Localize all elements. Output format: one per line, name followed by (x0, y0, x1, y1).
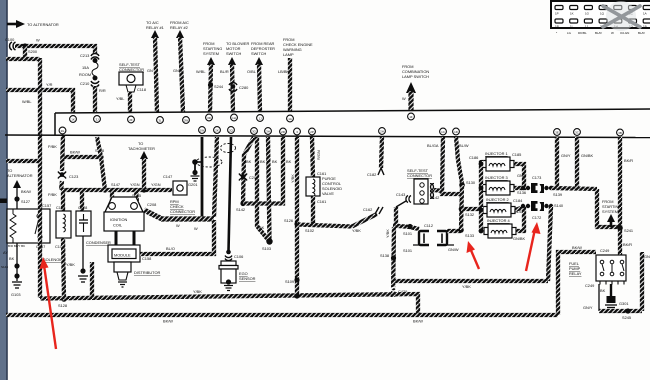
W/BL vertical bus (22, 58, 40, 298)
condenser C128 (76, 205, 111, 245)
coil to module wires (115, 231, 118, 246)
svg-text:BK: BK (259, 225, 265, 230)
svg-text:ROOM: ROOM (79, 72, 91, 77)
svg-text:S136: S136 (517, 190, 526, 195)
svg-text:C249: C249 (600, 248, 609, 253)
svg-text:S109: S109 (285, 279, 294, 284)
purge control solenoid valve (305, 176, 342, 233)
pin 2H down to open connector C182 (367, 137, 384, 177)
svg-text:2H: 2H (380, 130, 384, 134)
svg-text:1K: 1K (570, 12, 574, 16)
C164 down to bus (58, 238, 75, 308)
svg-text:1K: 1K (71, 118, 75, 122)
svg-text:S133: S133 (465, 233, 474, 238)
svg-text:BK/W: BK/W (572, 245, 582, 250)
C172 down wire to Y/BK feed (548, 206, 551, 281)
svg-text:SWITCH: SWITCH (251, 51, 267, 56)
RPM check connector (163, 174, 195, 214)
svg-text:C147: C147 (163, 174, 172, 179)
svg-text:1D: 1D (454, 130, 458, 134)
starter relay area: feed arrow TO ALTERNATOR (7, 168, 33, 209)
pin 2P down to purge valve (312, 137, 326, 177)
svg-text:O/BL: O/BL (247, 69, 257, 74)
svg-text:BL/GA: BL/GA (427, 143, 439, 148)
svg-text:W: W (194, 226, 198, 231)
svg-text:S142: S142 (236, 207, 245, 212)
Y/BK link and S101 (385, 224, 419, 238)
svg-text:1P: 1P (555, 12, 559, 16)
svg-text:LAMP SWITCH: LAMP SWITCH (402, 74, 429, 79)
stub wire into strip y161 (6, 159, 40, 163)
svg-text:BK/W: BK/W (413, 319, 423, 324)
connector C172 (521, 201, 564, 220)
Y/BK horizontal feed (393, 281, 548, 289)
svg-text:Y/GN: Y/GN (151, 182, 161, 187)
svg-text:COIL: COIL (113, 223, 123, 228)
svg-text:2P: 2P (310, 130, 314, 134)
svg-text:S200: S200 (28, 49, 38, 54)
connector C123 (58, 172, 78, 180)
svg-text:BL/O: BL/O (166, 246, 175, 251)
condenser C164 (56, 205, 71, 238)
svg-text:S103: S103 (262, 246, 271, 251)
connector C173 (521, 175, 562, 197)
fuel pump relay (569, 248, 626, 288)
wire W to fuse (15, 38, 95, 55)
svg-text:R/R: R/R (99, 88, 106, 93)
self-test connector C118 (top) (116, 62, 146, 113)
svg-text:SYSTEM: SYSTEM (602, 209, 618, 214)
svg-text:GN/Y: GN/Y (583, 305, 593, 310)
svg-text:BK/R: BK/R (624, 158, 633, 163)
svg-text:G301: G301 (619, 301, 629, 306)
svg-text:S140: S140 (554, 203, 564, 208)
wire pin 3C down (GN/BK) (577, 137, 594, 189)
wire pin 2K down (214, 137, 217, 217)
svg-text:C185: C185 (512, 152, 521, 157)
svg-text:Y/GN: Y/GN (130, 182, 140, 187)
svg-text:CONNECTOR: CONNECTOR (119, 67, 144, 72)
svg-text:2F: 2F (129, 118, 133, 122)
strip pins top row (70, 113, 415, 123)
svg-text:1L: 1L (570, 25, 574, 29)
svg-text:AY: AY (3, 250, 8, 255)
svg-text:ALTERNATOR: ALTERNATOR (7, 173, 33, 178)
svg-text:INJECTOR 4: INJECTOR 4 (487, 218, 510, 223)
svg-text:S139: S139 (553, 192, 562, 197)
svg-text:GN/Y: GN/Y (173, 68, 183, 73)
svg-text:SOLENOID: SOLENOID (43, 257, 63, 262)
arrow TO BLOWER MOTOR SWITCH (220, 41, 249, 112)
svg-text:3B: 3B (618, 131, 622, 135)
svg-text:3L: 3L (158, 119, 162, 123)
svg-text:TACHOMETER: TACHOMETER (128, 146, 155, 151)
svg-text:1A: 1A (643, 12, 647, 16)
injector right rail upper (514, 164, 527, 195)
svg-text:LB/BK: LB/BK (278, 69, 289, 74)
bus3 right riser to relay feed (558, 252, 596, 315)
svg-text:INJECTOR 3: INJECTOR 3 (485, 175, 508, 180)
bus3 BK/W (6, 315, 558, 324)
svg-text:C106: C106 (234, 254, 243, 259)
fuel pump relay ground (600, 284, 629, 310)
svg-text:Y/BK: Y/BK (193, 289, 202, 294)
svg-text:S128: S128 (58, 303, 67, 308)
svg-text:CONNECTOR: CONNECTOR (170, 209, 195, 214)
svg-text:3D: 3D (207, 116, 211, 120)
open connector C162 (363, 207, 383, 214)
svg-text:C143: C143 (396, 192, 405, 197)
svg-text:3H: 3H (266, 130, 270, 134)
wire to W/BL bus (6, 46, 40, 59)
svg-text:S245: S245 (622, 315, 631, 320)
svg-text:BK: BK (600, 288, 606, 293)
svg-text:P/BK: P/BK (48, 144, 57, 149)
injector 1 (469, 151, 521, 171)
EEC connector strip (5, 109, 650, 138)
svg-text:S244: S244 (214, 84, 224, 89)
svg-text:RELAY #2: RELAY #2 (170, 25, 188, 30)
svg-text:INJECTOR 2: INJECTOR 2 (486, 197, 509, 202)
svg-text:IGNITION: IGNITION (110, 217, 127, 222)
svg-text:W: W (176, 223, 180, 228)
arrow FROM CHECK ENGINE WARNING LAMP (278, 37, 313, 112)
svg-text:15A: 15A (82, 65, 89, 70)
ground G201 with dashed oval, from pin 1W (188, 137, 236, 219)
svg-text:C208: C208 (147, 202, 156, 207)
staircase to S241 (597, 189, 620, 227)
svg-text:P/BK: P/BK (48, 192, 57, 197)
svg-text:BL/R: BL/R (220, 69, 229, 74)
svg-text:C173: C173 (532, 175, 541, 180)
svg-text:1H: 1H (232, 116, 236, 120)
svg-text:RELAY: RELAY (569, 271, 582, 276)
svg-text:BK/W: BK/W (163, 319, 173, 324)
svg-text:1G: 1G (585, 12, 590, 16)
svg-text:C184: C184 (513, 198, 523, 203)
svg-text:C100: C100 (5, 37, 15, 42)
coil terminal stubs (110, 190, 114, 204)
self-test/Y-BK vertical down to bus (380, 227, 407, 297)
wire pin 3E down (GN/Y) (557, 137, 571, 188)
svg-text:C172: C172 (532, 215, 541, 220)
svg-text:1C: 1C (441, 130, 445, 134)
wire pin 3J down to S147 (97, 137, 120, 193)
svg-text:Y/BL: Y/BL (116, 96, 125, 101)
svg-text:S102: S102 (305, 228, 314, 233)
connector C106 (225, 250, 243, 261)
svg-text:MODULE: MODULE (114, 253, 131, 258)
svg-text:S241: S241 (624, 228, 633, 233)
svg-text:Y/BK: Y/BK (385, 229, 390, 238)
svg-text:1B: 1B (643, 25, 647, 29)
left window strip (0, 0, 7, 380)
svg-text:C157: C157 (36, 244, 45, 249)
svg-text:BK/R: BK/R (623, 242, 632, 247)
svg-text:3C: 3C (575, 131, 579, 135)
module left leg to bus (90, 262, 94, 298)
wire pin 2Q down to C106 (W) (194, 137, 231, 251)
svg-text:BK/W: BK/W (70, 150, 80, 155)
svg-text:C164: C164 (56, 205, 66, 210)
svg-text:S138: S138 (380, 253, 389, 258)
FROM STARTING SYSTEM (right) (602, 199, 621, 227)
svg-text:C249: C249 (585, 283, 594, 288)
svg-text:1F: 1F (409, 115, 413, 119)
injector right rail lower (515, 206, 524, 231)
Y/BK horizontal S126 line (297, 214, 377, 233)
svg-text:1J: 1J (585, 25, 589, 29)
svg-text:BK/W: BK/W (21, 189, 31, 194)
svg-text:C210: C210 (80, 81, 90, 86)
pin 2R down joins S142 (243, 137, 292, 204)
svg-text:BK: BK (260, 159, 266, 164)
svg-text:1A: 1A (288, 117, 292, 121)
red annotation arrow 2 (S-column) (467, 241, 480, 269)
svg-text:GN/BK: GN/BK (513, 236, 526, 241)
svg-text:G103: G103 (11, 292, 21, 297)
ignition coil (104, 197, 144, 231)
svg-text:Y/BK: Y/BK (66, 262, 75, 267)
svg-text:R/GN: R/GN (316, 150, 321, 160)
arrow FROM REAR DEFROSTER SWITCH (247, 41, 275, 112)
svg-text:LAMP: LAMP (283, 52, 294, 57)
svg-text:C158: C158 (142, 256, 151, 261)
svg-text:W: W (36, 38, 40, 43)
stubs down to condensers (61, 190, 65, 211)
wire pin 1C down (427, 137, 461, 194)
svg-text:SENSOR: SENSOR (239, 276, 256, 281)
svg-text:GN/Y: GN/Y (517, 173, 527, 178)
svg-text:CONNECTOR: CONNECTOR (407, 173, 432, 178)
svg-text:W/BL: W/BL (22, 99, 32, 104)
svg-text:W/BL: W/BL (196, 69, 206, 74)
strip pins bottom row (59, 127, 623, 136)
arrow FROM STARTING SYSTEM (top) (196, 41, 224, 112)
svg-text:C162: C162 (363, 207, 372, 212)
svg-text:SYSTEM: SYSTEM (203, 51, 219, 56)
pin 3H2 straight to S103 (262, 137, 278, 251)
arrow FROM A/C RELAY #2 (170, 20, 189, 112)
arrow TO A/C RELAY #1 (146, 20, 164, 112)
arrow FROM COMBINATION LAMP SWITCH (402, 64, 429, 111)
red annotation arrow 3 (C172) (526, 222, 541, 271)
svg-text:S101: S101 (403, 231, 412, 236)
svg-text:S127: S127 (21, 199, 30, 204)
connector C206 (239, 174, 258, 181)
C128 down to ground (78, 236, 88, 282)
wire from pin 2G down (P/BK) (48, 136, 63, 197)
svg-text:2K: 2K (215, 129, 219, 133)
svg-text:C118: C118 (137, 87, 146, 92)
arrow TO ALTERNATOR (top left) (7, 20, 59, 28)
svg-text:S101: S101 (403, 248, 412, 253)
svg-text:C182: C182 (367, 172, 376, 177)
svg-text:BL/R: BL/R (595, 31, 603, 35)
svg-text:C123: C123 (69, 174, 78, 179)
fuse chain C213 / 15A / C210 (79, 53, 106, 113)
BK wire cluster: pin 3G down to S142 (236, 137, 254, 212)
svg-text:GN/BK: GN/BK (581, 153, 594, 158)
svg-text:C280: C280 (239, 85, 249, 90)
svg-text:2R: 2R (281, 130, 285, 134)
svg-text:Y/R: Y/R (46, 82, 53, 87)
svg-text:SWITCH: SWITCH (226, 51, 242, 56)
pin 3H down diagonal to S103 (257, 137, 269, 241)
svg-text:INJECTOR 1: INJECTOR 1 (485, 151, 508, 156)
junction column (459, 185, 481, 230)
svg-text:2W: 2W (184, 119, 189, 123)
svg-text:G201: G201 (188, 182, 198, 187)
svg-text:BK: BK (272, 159, 278, 164)
injector 3 (482, 175, 514, 195)
svg-text:Y/BK: Y/BK (352, 228, 361, 233)
bus2 Y/BK (40, 289, 418, 315)
svg-text:DK/BL: DK/BL (578, 31, 587, 35)
svg-text:GN/Y: GN/Y (561, 153, 571, 158)
svg-text:GN/W: GN/W (448, 247, 459, 252)
svg-text:S126: S126 (284, 218, 293, 223)
inline connector C112 (two D-pairs) (403, 223, 474, 253)
svg-text:BL/W: BL/W (459, 143, 469, 148)
svg-text:TO ALTERNATOR: TO ALTERNATOR (27, 22, 59, 27)
svg-text:S130: S130 (466, 180, 476, 185)
pin 3 down (Y/BK) long vertical (284, 137, 300, 297)
svg-text:DISTRIBUTOR: DISTRIBUTOR (134, 270, 160, 275)
strip edge connector stub (0, 199, 7, 204)
svg-text:S147: S147 (111, 182, 120, 187)
Y/R horizontal bus to pin 1K (6, 82, 73, 113)
svg-text:VALVE: VALVE (322, 191, 334, 196)
svg-text:RELAY #1: RELAY #1 (146, 25, 164, 30)
svg-text:C186: C186 (469, 155, 478, 160)
injector left rail (479, 160, 484, 233)
svg-text:Y/BK: Y/BK (290, 174, 295, 183)
svg-text:C112: C112 (424, 223, 433, 228)
svg-text:BL/R: BL/R (638, 31, 646, 35)
svg-text:C213: C213 (80, 53, 89, 58)
BL/O wire from module (140, 220, 214, 254)
svg-text:Y/BK: Y/BK (462, 284, 471, 289)
fuse panel (top right) (551, 1, 650, 35)
svg-text:LG: LG (567, 31, 572, 35)
fuel pump relay left pin to GN/Y run (583, 252, 650, 320)
EGO sensor (219, 261, 256, 291)
svg-text:GN: GN (147, 68, 153, 73)
distributor (114, 262, 160, 287)
self test drop to Y/BK line (394, 207, 398, 225)
svg-text:BK: BK (286, 159, 292, 164)
relay labels (3, 244, 65, 262)
svg-text:O/LGN: O/LGN (620, 31, 629, 35)
svg-text:C142: C142 (430, 195, 439, 200)
svg-text:W: W (611, 31, 614, 35)
injector 2 (483, 197, 523, 217)
wire 3E junction to staircase (551, 188, 597, 189)
gray X mark (606, 1, 636, 31)
wire pin 1D down to S130 (456, 137, 476, 188)
svg-text:C161: C161 (317, 199, 326, 204)
svg-text:C128: C128 (78, 205, 87, 210)
injector 4 (484, 218, 526, 241)
svg-text:C157: C157 (42, 203, 51, 208)
TO TACHOMETER arrow (128, 141, 155, 190)
svg-text:3E: 3E (555, 131, 559, 135)
svg-text:1W: 1W (200, 129, 205, 133)
svg-text:1Q: 1Q (600, 12, 605, 16)
connector C100 (5, 37, 16, 50)
red annotation arrow 1 (starter relay) (40, 257, 57, 349)
thick W wire from coil (144, 210, 214, 228)
svg-text:CONDENSER: CONDENSER (86, 240, 111, 245)
starter relay box (7, 203, 51, 243)
svg-text:S144: S144 (1, 265, 8, 269)
svg-text:GN: GN (644, 254, 650, 259)
BK/W branch S148 (62, 148, 104, 160)
self test connector (middle) (396, 168, 443, 204)
svg-text:S132: S132 (465, 212, 474, 217)
svg-text:BK: BK (246, 159, 252, 164)
svg-text:BK: BK (9, 256, 15, 261)
svg-text:W: W (402, 96, 406, 101)
wire pin 3B down to fuel pump relay (617, 137, 633, 255)
module (108, 245, 151, 262)
Y/GN horizontal to RPM connector (61, 182, 172, 207)
relay ground G103 (1, 243, 22, 297)
